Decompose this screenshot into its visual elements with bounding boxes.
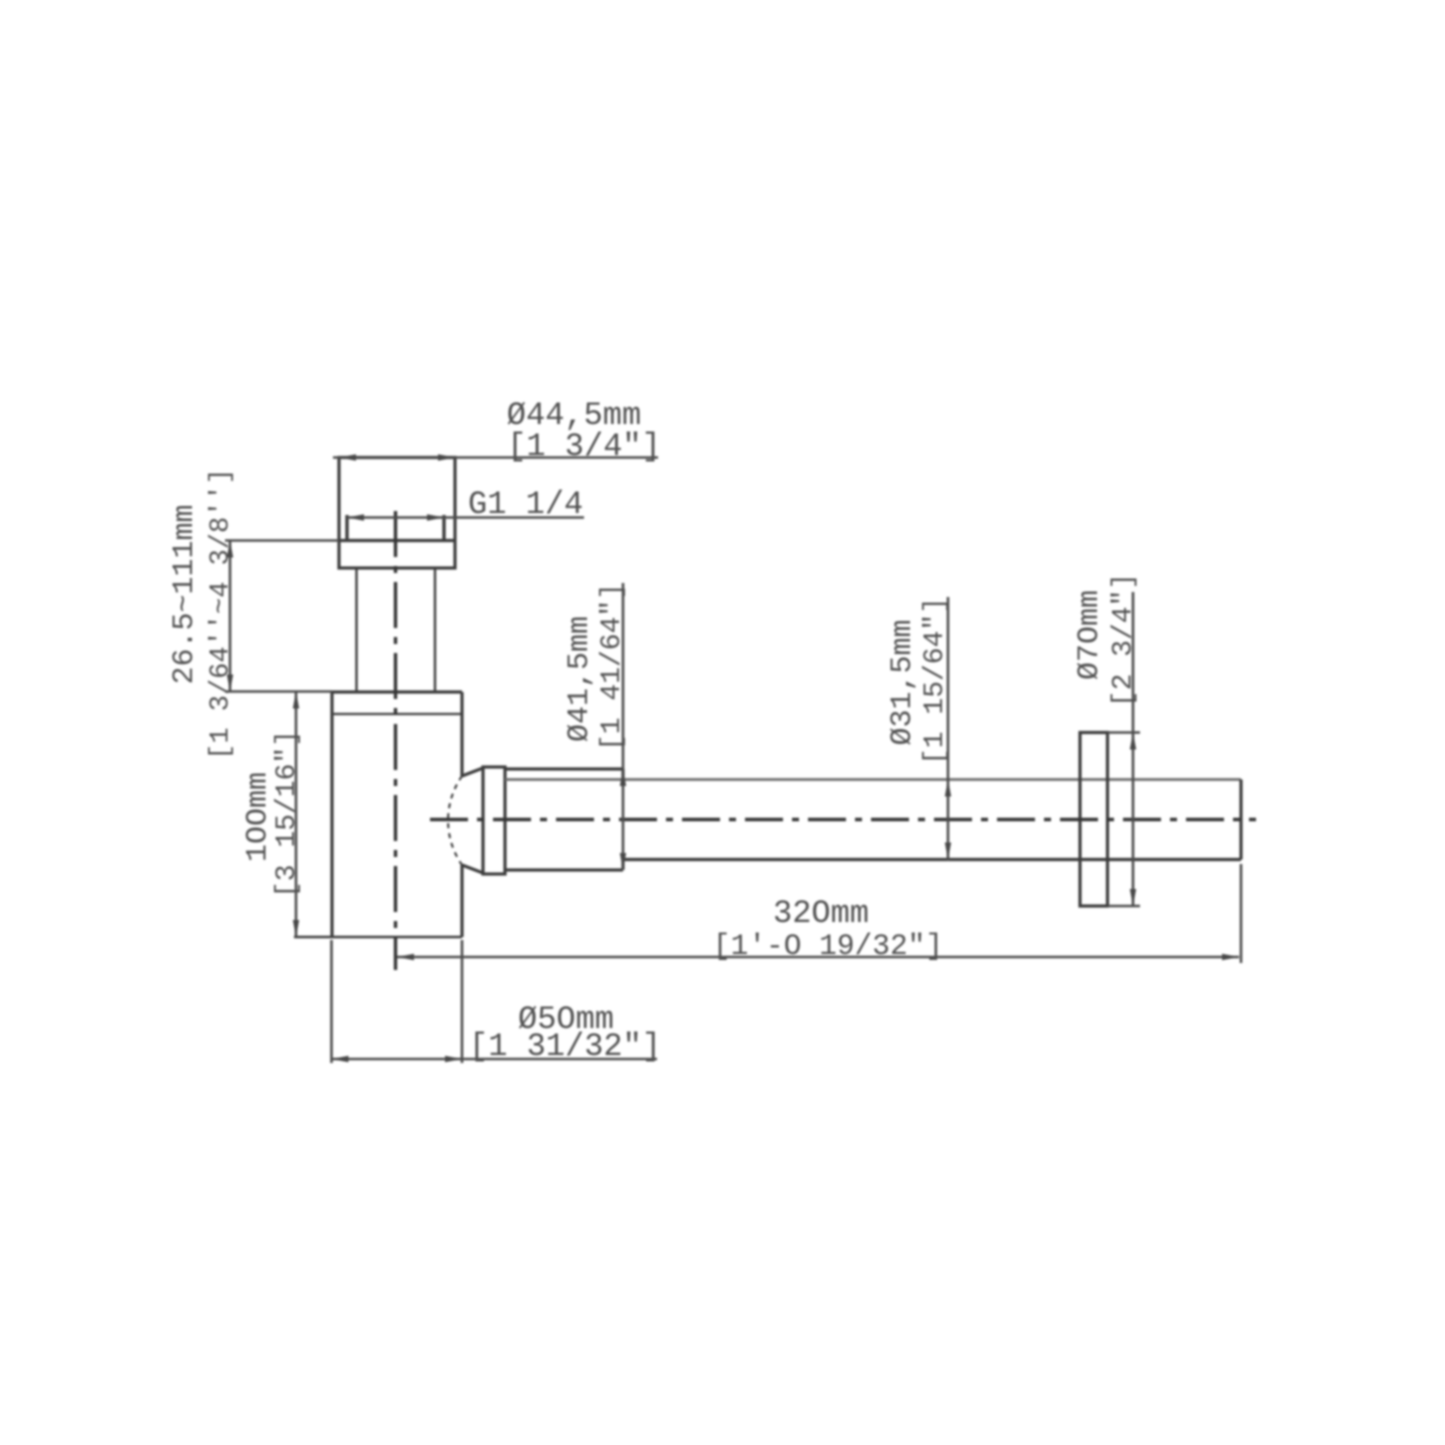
compression nut [483,767,505,874]
dim 26.5 ext bottom [225,690,332,693]
svg-text:26.5~111mm: 26.5~111mm [168,504,202,684]
wall flange [1080,733,1108,907]
centerlines [396,511,1257,970]
dim O50 line [332,1058,658,1061]
svg-text:G1 1/4: G1 1/4 [468,486,583,523]
svg-text:[1 41/64″]: [1 41/64″] [597,583,628,751]
svg-text:[1′-O 19/32″]: [1′-O 19/32″] [713,929,943,963]
top flange inner horizontal line [339,539,455,542]
thread line left [345,515,348,541]
dim G1 1/4 line [347,516,584,519]
elbow hidden arc [448,776,462,865]
svg-text:[1 31/32″]: [1 31/32″] [469,1028,661,1065]
pipe end [1239,780,1242,860]
dim 26.5 ext top [225,539,339,542]
svg-text:32Omm: 32Omm [773,895,869,932]
horizontal outlet pipe [505,778,1241,781]
coupler / threaded section [505,767,623,770]
svg-text:[3 15/16″]: [3 15/16″] [272,730,303,898]
elbow connector bottom [462,865,483,873]
26.5 arrows [227,541,233,558]
dim O50 ext left [330,940,333,1063]
svg-text:[1 3/64′′~4 3/8′′]: [1 3/64′′~4 3/8′′] [207,468,237,760]
dim O50 ext right [461,940,464,1063]
dim O70 ext bottom [1108,905,1141,908]
top flange body outline [339,458,455,569]
elbow connector top [462,768,483,776]
svg-text:[2 3/4″]: [2 3/4″] [1109,573,1140,707]
O50 arrows [332,1056,349,1062]
dim 320 line [397,956,1239,959]
O44.5 arrows [339,454,356,460]
thread line right [442,515,445,541]
dim 100 vline [295,692,298,938]
O70 arrows [1130,733,1136,750]
arrowheads [227,454,1239,1062]
dim 26.5 vline [229,541,232,692]
dim O70 vline [1132,592,1135,906]
svg-text:Ø41,5mm: Ø41,5mm [563,616,597,742]
svg-text:[1 15/64″]: [1 15/64″] [920,597,951,765]
svg-text:Ø31,5mm: Ø31,5mm [886,619,920,745]
dim 320 ext right [1240,864,1243,963]
trap body (bottle) [332,690,462,693]
svg-text:1OOmm: 1OOmm [242,772,276,862]
dim O70 ext top [1108,731,1141,734]
G1 1/4 arrows [347,514,364,520]
svg-text:[1 3/4″]: [1 3/4″] [507,428,661,465]
body bottom edge + extension [294,936,462,938]
dim O41.5 vline [622,583,625,870]
vertical inlet pipe [355,568,357,692]
O41.5 arrows [620,769,626,786]
320 arrows [397,954,414,960]
horizontal centerline [430,818,1256,821]
100 arrows [293,692,299,709]
vertical centerline [394,511,397,970]
svg-text:Ø7Omm: Ø7Omm [1073,590,1107,680]
dim O44.5 line [333,456,658,459]
O31.5 arrows [945,780,951,797]
dim O31.5 vline [947,597,950,860]
